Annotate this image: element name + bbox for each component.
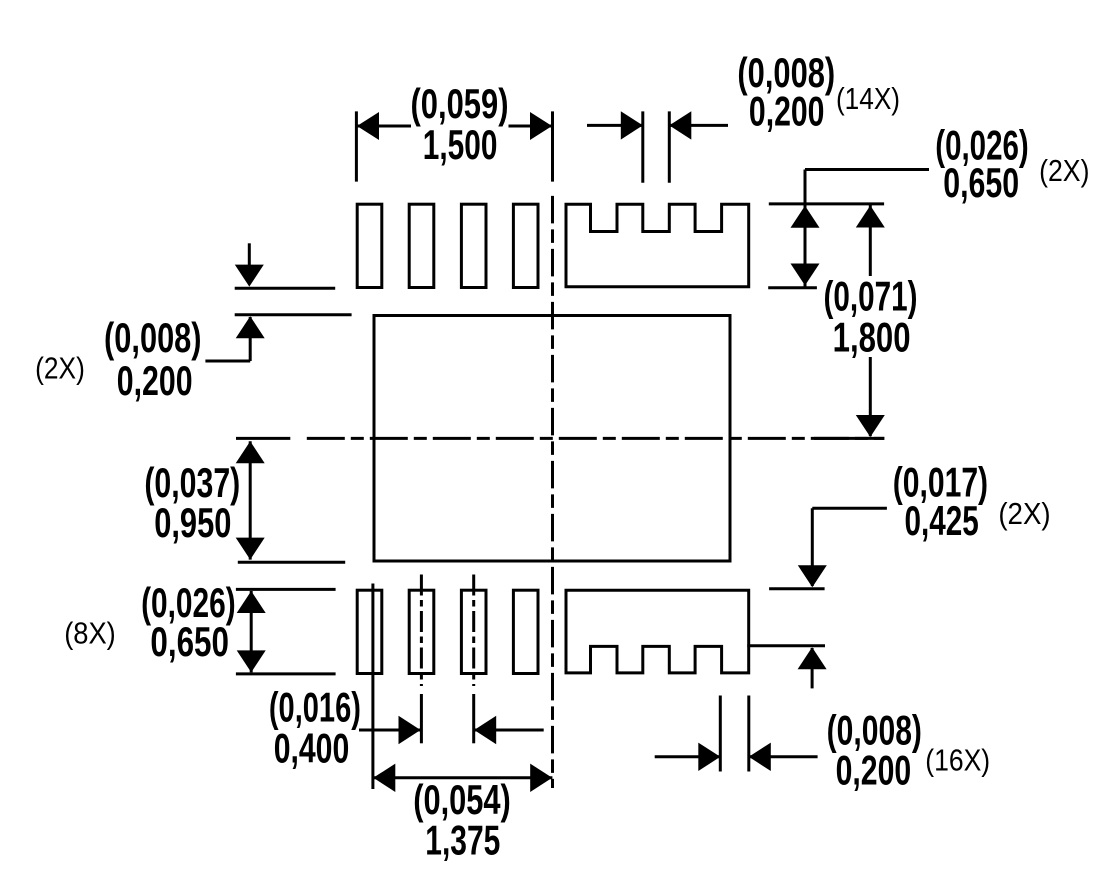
arrowhead 0,200 14X left bbox=[621, 111, 643, 139]
svg-text:0,650: 0,650 bbox=[150, 618, 229, 665]
dim 1,500 ext line right (centerline top) bbox=[551, 111, 554, 181]
top pad 4 bbox=[513, 204, 538, 287]
svg-text:(16X): (16X) bbox=[925, 743, 990, 778]
dim 0,650 (8X) ext bottom bbox=[236, 672, 336, 675]
dim 0,650 (2X) shaft and leader bbox=[804, 170, 807, 288]
dim 0,425 lower arrow shaft bbox=[811, 648, 814, 688]
arrowheads 0,650 8X bbox=[237, 591, 266, 613]
arrowhead 0,400 left bbox=[399, 716, 421, 744]
top pad 1 bbox=[357, 204, 382, 287]
svg-text:(0,016): (0,016) bbox=[269, 684, 361, 731]
svg-text:0,200: 0,200 bbox=[117, 357, 193, 404]
svg-text:1,800: 1,800 bbox=[833, 313, 911, 360]
dim 0,200 (14X) ext lines bbox=[641, 111, 644, 182]
svg-text:(2X): (2X) bbox=[35, 350, 85, 385]
dim 0,200 (16X) arrow tails bbox=[655, 755, 721, 758]
arrowheads 0,650 2X bbox=[791, 206, 820, 228]
svg-text:(8X): (8X) bbox=[64, 615, 116, 650]
dim 0,200 (2X) left: down arrow shaft bbox=[248, 243, 251, 266]
dim 0,425 (2X) leader bbox=[812, 507, 887, 510]
svg-text:1,500: 1,500 bbox=[423, 121, 498, 168]
svg-text:0,200: 0,200 bbox=[836, 747, 912, 794]
arrowhead 0,400 right bbox=[474, 716, 496, 744]
bottom solder-mask comb bbox=[566, 590, 749, 673]
pad2 centerline ext bbox=[420, 575, 423, 687]
svg-text:(2X): (2X) bbox=[998, 496, 1050, 531]
top pad 2 bbox=[409, 204, 434, 287]
arrowheads 1,375 bbox=[373, 764, 395, 792]
dim 0,650 (2X) ext top bbox=[769, 202, 884, 205]
svg-text:0,950: 0,950 bbox=[154, 499, 231, 546]
svg-text:(0,008): (0,008) bbox=[104, 314, 202, 361]
pad3 centerline ext bbox=[472, 575, 475, 687]
arrowhead 0,425 up bbox=[798, 647, 827, 669]
svg-text:(2X): (2X) bbox=[1039, 153, 1089, 188]
arrowhead 0,200 2X down bbox=[235, 265, 264, 287]
svg-text:1,375: 1,375 bbox=[425, 816, 500, 863]
dim 0,400 arrow tails bbox=[359, 729, 421, 732]
bottom pad 2 bbox=[409, 590, 434, 673]
bottom pad 3 bbox=[461, 590, 486, 673]
dim 0,650 (2X) ext bottom bbox=[768, 286, 817, 289]
thermal pad rectangle bbox=[374, 316, 730, 562]
dim 0,650 (8X) shaft bbox=[250, 591, 253, 672]
svg-text:0,425: 0,425 bbox=[904, 497, 978, 544]
dim 1,500 ext line left bbox=[355, 111, 358, 181]
dim 0,425 ext at notch top bbox=[747, 644, 825, 647]
arrowhead 1,500 left bbox=[357, 112, 379, 140]
dim 0,200 (14X) arrow tails bbox=[587, 124, 643, 127]
svg-text:(14X): (14X) bbox=[836, 81, 900, 116]
dim 0,200 (2X) up arrow shaft and leader bbox=[249, 317, 252, 361]
dim 0,950 ext at rect bottom bbox=[238, 561, 345, 564]
bottom pad 1 bbox=[357, 590, 382, 673]
top solder-mask comb bbox=[566, 204, 749, 287]
bottom pad 4 bbox=[513, 590, 538, 673]
arrowhead 1,500 right bbox=[530, 112, 552, 140]
svg-text:0,200: 0,200 bbox=[749, 88, 825, 135]
arrowheads 1,800 bbox=[856, 206, 885, 228]
arrowhead 0,200 16X left bbox=[698, 743, 720, 771]
top pad 3 bbox=[461, 204, 486, 287]
dim 0,200 (2X) ext at rect top bbox=[235, 313, 352, 316]
horizontal centerline bbox=[307, 437, 885, 440]
dim 0,200 (2X) ext at pad bottom bbox=[235, 287, 336, 290]
svg-text:0,650: 0,650 bbox=[943, 159, 1019, 206]
arrowhead 0,200 2X up bbox=[236, 316, 265, 338]
svg-text:0,400: 0,400 bbox=[274, 725, 350, 772]
vertical centerline bbox=[236, 196, 884, 788]
dim 0,650 (8X) ext top bbox=[236, 588, 336, 591]
dim 1,375 ext line bbox=[371, 584, 374, 790]
arrowhead 0,200 14X right bbox=[669, 111, 691, 139]
dim 0,425 ext at pad top bbox=[769, 587, 825, 590]
dim 0,200 (16X) ext lines bbox=[719, 696, 722, 772]
arrowhead 0,425 down bbox=[798, 565, 827, 587]
arrowhead 0,200 16X right bbox=[749, 743, 771, 771]
dim 1,800 shaft bbox=[869, 205, 872, 276]
arrowheads 0,950 bbox=[236, 441, 265, 463]
dim 0,950 shaft bbox=[249, 441, 252, 559]
dim 1,375 dimension line bbox=[373, 776, 552, 779]
dim 1,500 dimension line bbox=[356, 125, 411, 128]
